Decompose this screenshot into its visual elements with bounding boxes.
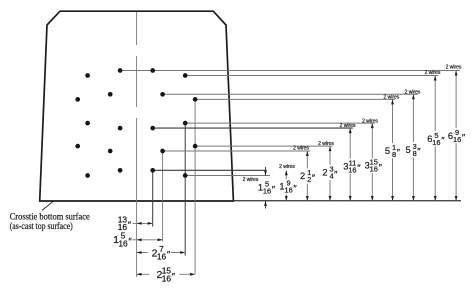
- svg-text:2 wires: 2 wires: [318, 141, 334, 147]
- label 6 9/16&#34;: [447, 128, 464, 143]
- leader for bottom surface note: [42, 201, 53, 210]
- leader line for 3 11/16 wire pair: [153, 127, 353, 129]
- label 2 7/16&#34;: [148, 245, 171, 260]
- bottom surface extension line (dimension baseline): [233, 200, 461, 202]
- wire dot -2_7 col at height 3 15/16: [85, 121, 90, 126]
- leader line for 6 5/16 wire pair: [185, 75, 438, 77]
- extension line, +1 5/16 wire column: [162, 151, 164, 242]
- label 6 5/16&#34;: [427, 131, 444, 146]
- bottom dimension line 13/16 (centerline to wire column): [137, 222, 153, 224]
- label 1 5/16&#34;: [109, 232, 132, 247]
- label 5 1/8&#34;: [384, 143, 401, 158]
- leader line for 3 15/16 wire pair: [185, 122, 374, 124]
- svg-text:16: 16: [432, 138, 440, 147]
- svg-text:2: 2: [322, 168, 327, 178]
- leader line for 1 9/16 wire pair: [153, 169, 267, 171]
- svg-text:2 wires: 2 wires: [425, 70, 441, 76]
- vertical dimension line 1 5/16: [265, 167, 267, 176]
- wire dot 2_7 col at height 6 5/16: [183, 73, 188, 78]
- wire dot 2_7 col at height 3 15/16: [183, 121, 188, 126]
- svg-text:4: 4: [329, 172, 333, 181]
- vertical dimension line 3 11/16: [349, 128, 351, 201]
- extension line, +2 7/16 wire column: [184, 123, 186, 256]
- bottom dimension line 2 15/16 (centerline to wire column): [137, 273, 196, 275]
- wire dot 2_7 col at height 1 5/16: [183, 173, 188, 178]
- vertical dimension line 1 9/16: [285, 170, 287, 201]
- svg-text:2 wires: 2 wires: [383, 95, 399, 101]
- svg-text:2 wires: 2 wires: [446, 64, 462, 70]
- svg-text:2 wires: 2 wires: [279, 164, 295, 170]
- svg-text:16: 16: [284, 186, 292, 195]
- vertical dimension line 6 9/16: [455, 71, 457, 202]
- svg-text:16: 16: [370, 165, 378, 174]
- wire dot -1_5 col at height 5 3/8: [108, 92, 113, 97]
- wire dot -2_7 col at height 1 5/16: [85, 173, 90, 178]
- vertical centerline (dashed): [136, 12, 138, 45]
- vertical dimension line 2 1/2: [306, 151, 308, 201]
- extension line, +13/16 wire column: [152, 170, 154, 226]
- label 13/16&#34;: [108, 216, 133, 231]
- svg-text:2 wires: 2 wires: [243, 177, 259, 183]
- label 2 15/16&#34;: [149, 267, 179, 282]
- label 1 5/16&#34;: [257, 180, 274, 195]
- wire dot -13 col at height 3 11/16: [118, 126, 123, 131]
- svg-text:16: 16: [157, 252, 167, 262]
- bottom dimension line 2 7/16 (centerline to wire column): [137, 252, 186, 254]
- label 1 9/16&#34;: [279, 179, 296, 194]
- vertical dimension line 2 3/4: [329, 146, 331, 201]
- wire dot 2_15 col at height 5 1/8: [193, 97, 198, 102]
- leader line for 5 3/8 wire pair: [163, 93, 418, 95]
- svg-text:2 wires: 2 wires: [340, 123, 356, 129]
- crosstie cross-section outline: [40, 11, 234, 201]
- svg-text:2 wires: 2 wires: [405, 89, 421, 95]
- wire dot 2_15 col at height 2 3/4: [193, 144, 198, 149]
- wire dot -2_15 col at height 2 3/4: [75, 144, 80, 149]
- vertical dimension line 5 1/8: [392, 99, 394, 201]
- vertical dimension line 3 15/16: [371, 123, 373, 201]
- label 5 3/8&#34;: [405, 142, 422, 157]
- wire dot -13 col at height 1 9/16: [118, 168, 123, 173]
- bottom dimension line 1 5/16 (centerline to wire column): [137, 239, 163, 241]
- wire dot -1_5 col at height 2 1/2: [108, 149, 113, 154]
- wire dot -2_7 col at height 6 5/16: [85, 73, 90, 78]
- svg-text:5: 5: [385, 146, 390, 156]
- svg-text:2 wires: 2 wires: [293, 146, 309, 152]
- svg-text:16: 16: [118, 238, 128, 248]
- extension line, +2 15/16 wire column: [194, 99, 196, 273]
- leader line for 6 9/16 wire pair: [120, 70, 460, 72]
- svg-text:8: 8: [392, 150, 396, 159]
- svg-text:2: 2: [307, 175, 311, 184]
- svg-text:8: 8: [413, 149, 417, 158]
- svg-text:5: 5: [406, 145, 411, 155]
- label 2 3/4&#34;: [322, 165, 339, 180]
- leader line for 2 1/2 wire pair: [163, 150, 311, 152]
- leader line for 1 5/16 wire pair: [185, 175, 270, 177]
- svg-text:(as-cast top surface): (as-cast top surface): [10, 221, 73, 232]
- svg-text:2: 2: [300, 171, 305, 181]
- leader line for 5 1/8 wire pair: [195, 98, 395, 100]
- wire dot -13 col at height 6 9/16: [118, 68, 123, 73]
- vertical dimension line 5 3/8: [412, 94, 414, 201]
- label 3 11/16&#34;: [343, 159, 360, 174]
- centerline extension below tie: [136, 201, 138, 277]
- wire dot 13 col at height 1 9/16: [150, 168, 155, 173]
- wire dot 1_5 col at height 5 3/8: [160, 92, 165, 97]
- svg-text:16: 16: [348, 165, 356, 174]
- svg-text:16: 16: [453, 135, 461, 144]
- wire dot 13 col at height 6 9/16: [150, 68, 155, 73]
- label 3 15/16&#34;: [364, 158, 381, 173]
- wire dot 13 col at height 3 11/16: [150, 126, 155, 131]
- leader line for 2 3/4 wire pair: [195, 145, 332, 147]
- label 2 1/2&#34;: [300, 168, 317, 183]
- svg-text:16: 16: [162, 273, 172, 283]
- vertical dimension line 6 5/16: [434, 76, 436, 202]
- wire dot -2_15 col at height 5 1/8: [75, 97, 80, 102]
- svg-text:16: 16: [263, 187, 271, 196]
- svg-text:Crosstie bottom surface: Crosstie bottom surface: [10, 211, 90, 222]
- wire dot 1_5 col at height 2 1/2: [160, 149, 165, 154]
- svg-text:2 wires: 2 wires: [362, 118, 378, 124]
